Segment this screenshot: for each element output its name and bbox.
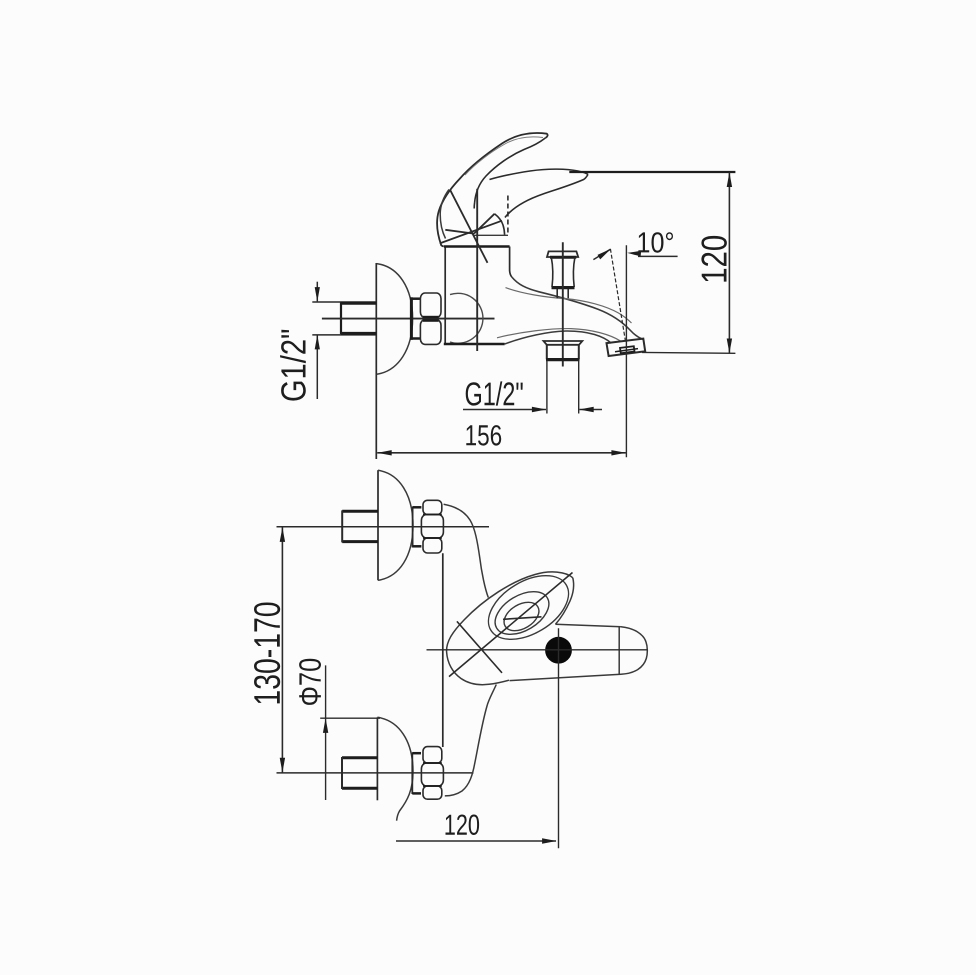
dot vertical extension (558, 628, 560, 848)
top hex nut (421, 500, 443, 553)
dimension 156 (377, 425, 626, 455)
dimension phi70 (299, 659, 380, 800)
egg slash (503, 617, 542, 620)
body edge from top nut to handle (444, 504, 489, 597)
cross line B (449, 573, 573, 677)
diverter/outlet centerline vertical (562, 242, 564, 366)
lower inlet pipe (342, 757, 377, 789)
cross line A (457, 621, 502, 673)
lower escutcheon dome (377, 717, 413, 820)
spout outlet dot (545, 637, 572, 664)
top collar (413, 507, 422, 548)
handle lever inner edge (474, 138, 545, 209)
cross line 1 (450, 190, 488, 263)
collar (side) (410, 297, 420, 340)
handle axis centerline (476, 189, 478, 351)
handle egg innermost ellipse (499, 596, 544, 636)
dimension G1/2 left (280, 282, 320, 401)
horn tail to cap (495, 214, 505, 235)
body capsule front (510, 624, 648, 680)
handle pivot cap left arc (440, 190, 449, 239)
dimension 10 degrees (593, 232, 677, 457)
handle lever outer edge (437, 133, 548, 246)
lower connection centerline (277, 772, 474, 774)
cap notch line (474, 214, 495, 234)
cap bottom lip (474, 234, 508, 236)
body surface line (faint) (506, 288, 632, 323)
dimension 130-170 (254, 527, 285, 773)
cap top edge (445, 230, 474, 234)
centerline horizontal (side) (322, 318, 495, 320)
wall line (375, 263, 377, 459)
handle egg outer (447, 572, 574, 685)
lower collar (412, 753, 421, 795)
bottom view centerline horizontal (427, 649, 648, 651)
top escutcheon dome (378, 470, 413, 580)
top connection centerline (277, 526, 490, 528)
body sphere cap (450, 293, 483, 343)
spout top edge (512, 277, 644, 340)
handle egg inner ellipse 2 (488, 583, 557, 643)
handle horn upper edge (490, 169, 589, 179)
handle horn lower edge (505, 174, 588, 217)
cross line 2 (440, 221, 502, 244)
dashed cap right edge (507, 196, 509, 235)
handle inner highlight (faint) (465, 137, 543, 175)
handle egg inner ellipse 1 (477, 563, 579, 653)
bath outlet G1/2 (bottom of spout) (544, 341, 583, 360)
dimension 120 right (569, 172, 735, 353)
dimension 120 bottom (396, 815, 557, 844)
escutcheon dome (side) (377, 264, 413, 375)
hex nut (side) (420, 293, 441, 344)
dimension G1/2 bottom (463, 361, 602, 414)
lower hex nut (421, 747, 443, 800)
top inlet pipe (342, 510, 378, 542)
diverter knob (547, 251, 578, 298)
spout underside (497, 329, 621, 344)
inlet pipe G1/2 (side) (312, 302, 376, 335)
body tail from egg to lower nut (445, 685, 497, 796)
aerator at spout tip (607, 339, 646, 356)
body column (444, 247, 512, 345)
mounting body vertical line (442, 553, 444, 747)
